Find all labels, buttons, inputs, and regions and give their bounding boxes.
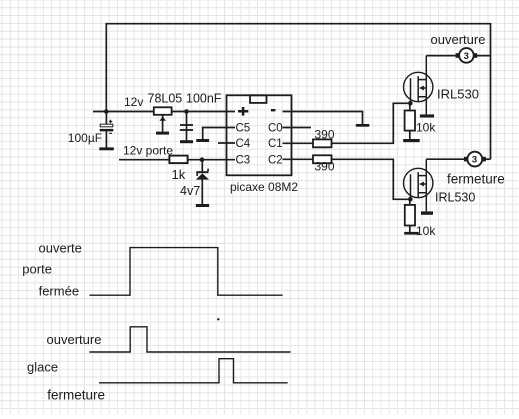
wire main 5V rail [93, 111, 235, 113]
resistor R1 390 [313, 139, 332, 147]
svg-text:C1: C1 [268, 138, 283, 150]
svg-text:C3: C3 [236, 155, 251, 167]
ground bar for C5 [196, 139, 209, 142]
svg-text:fermeture: fermeture [447, 172, 505, 187]
wire fermeture motor right [482, 158, 491, 160]
wire minus pin to ground [283, 112, 363, 125]
wire 10k R pulldown Q2 [409, 199, 411, 232]
wire 100uF leads [105, 112, 107, 148]
node junction 5v after regulator [184, 109, 189, 114]
wire C1 to Q1 gate [283, 103, 411, 143]
wire 100nF leads [186, 112, 188, 141]
ground bar Q1 source [420, 114, 434, 117]
svg-text:ouverte: ouverte [39, 241, 82, 256]
waveform porte [89, 248, 282, 296]
svg-text:10k: 10k [416, 224, 436, 238]
svg-text:C5: C5 [236, 123, 251, 135]
ground bar under 10k Q2 [404, 232, 419, 235]
svg-text:C0: C0 [268, 123, 283, 135]
transistor Q1 IRL530 [404, 56, 433, 115]
pin - label [271, 109, 276, 111]
svg-text:IRL530: IRL530 [437, 87, 479, 102]
svg-text:C4: C4 [236, 138, 251, 150]
wire C5 to ground [203, 128, 235, 140]
wire C2 to Q2 gate [283, 159, 411, 199]
node stray dot [217, 318, 219, 320]
regulator U2 78L05 [154, 107, 172, 121]
op-amp U1 picaxe 08M2 IC body [227, 95, 292, 175]
ground bar under zener [196, 204, 209, 207]
svg-text:ouverture: ouverture [431, 32, 486, 47]
svg-text:3: 3 [464, 51, 469, 62]
ground bar under 100uF [99, 147, 114, 150]
resistor R3 1k [169, 156, 187, 164]
node junction 12v rail [104, 109, 109, 114]
ground bar for minus pin [356, 124, 370, 127]
svg-text:3: 3 [472, 155, 477, 166]
node junction porte zener [200, 157, 205, 162]
ground bar under 100nF [180, 140, 193, 143]
diode D1 zener 4v7 [196, 169, 209, 180]
wire C0 stub [283, 127, 312, 129]
wire 10k R pulldown Q1 [409, 103, 411, 139]
svg-text:12v: 12v [124, 95, 143, 109]
ground bar Q2 source [421, 211, 433, 214]
svg-text:porte: porte [22, 261, 52, 276]
svg-text:C2: C2 [268, 155, 283, 167]
wire fermeture motor left [426, 158, 467, 160]
svg-text:100µF: 100µF [68, 131, 102, 145]
capacitor C100uF plates [100, 120, 114, 134]
svg-text:10k: 10k [416, 121, 436, 135]
motor M1 ouverture [456, 48, 478, 63]
svg-text:390: 390 [315, 160, 335, 174]
node junction Q2 gate [408, 197, 413, 202]
svg-text:IRL530: IRL530 [435, 191, 475, 205]
wire C4 stub [218, 142, 235, 144]
svg-text:fermée: fermée [39, 284, 79, 299]
svg-text:12v porte: 12v porte [123, 143, 173, 157]
ground bar under 78L05 [156, 132, 169, 135]
svg-text:78L05: 78L05 [148, 92, 183, 106]
node junction Q1 gate [408, 101, 413, 106]
capacitor C100nF plates [180, 124, 193, 131]
svg-text:picaxe 08M2: picaxe 08M2 [230, 180, 298, 194]
svg-text:ouverture: ouverture [47, 332, 102, 347]
svg-text:1k: 1k [172, 167, 186, 182]
wire 78L05 ground lead [162, 115, 164, 132]
resistor R2 390 [313, 155, 332, 163]
waveform glace ouverture [89, 327, 290, 352]
svg-text:390: 390 [315, 127, 335, 141]
ground bar under 10k Q1 [403, 139, 420, 142]
resistor R5 10k [405, 205, 415, 226]
svg-text:4v7: 4v7 [180, 184, 200, 198]
wire 12v porte input [119, 159, 235, 161]
pin + label [238, 107, 248, 116]
wire ouverture motor left [426, 55, 459, 57]
wire 12V top rail [106, 24, 490, 160]
motor M2 fermeture [464, 152, 486, 167]
resistor R4 10k [405, 111, 415, 131]
svg-text:glace: glace [27, 360, 58, 375]
svg-text:fermeture: fermeture [47, 387, 105, 402]
waveform glace fermeture [99, 359, 288, 383]
svg-text:100nF: 100nF [186, 92, 222, 106]
wire ouverture motor right [474, 55, 491, 57]
wire zener leads [201, 160, 203, 204]
transistor Q2 IRL530 [404, 159, 433, 211]
